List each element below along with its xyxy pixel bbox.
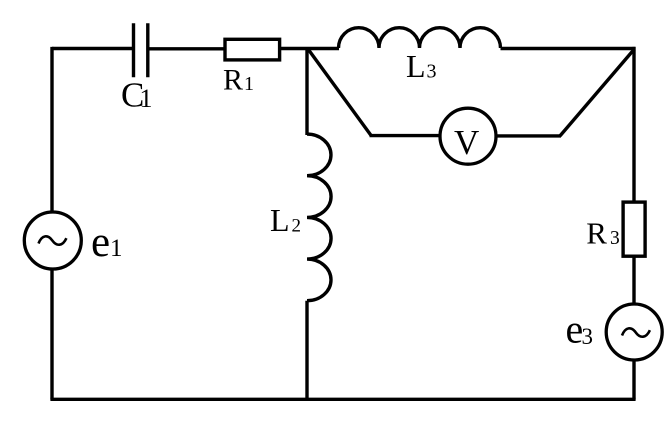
AC source e3 circle bbox=[606, 304, 662, 360]
svg-text:R: R bbox=[223, 63, 243, 96]
capacitor C1 plates bbox=[134, 23, 148, 77]
AC source e1 circle bbox=[24, 212, 81, 269]
inductor L3 coil (4 humps) bbox=[339, 28, 501, 48]
resistor R3 body bbox=[623, 202, 645, 256]
svg-text:L: L bbox=[406, 48, 426, 84]
svg-text:1: 1 bbox=[110, 235, 123, 262]
svg-text:3: 3 bbox=[427, 61, 437, 83]
svg-text:L: L bbox=[270, 202, 290, 238]
wire: e3 bottom to bottom-right corner bbox=[632, 359, 635, 400]
svg-text:R: R bbox=[586, 216, 607, 251]
svg-text:1: 1 bbox=[244, 73, 254, 95]
svg-text:e: e bbox=[91, 219, 110, 266]
wire: R3 bottom to e3 top bbox=[632, 256, 635, 305]
svg-text:V: V bbox=[454, 123, 479, 162]
resistor R1 body bbox=[225, 39, 280, 60]
wire: left vertical (e1 bottom to bottom-left corner) bbox=[50, 268, 53, 400]
voltmeter V circle bbox=[440, 108, 496, 164]
wire: R1 right to L3 start (through node) bbox=[281, 47, 339, 50]
sine symbol in e1 bbox=[39, 236, 67, 244]
wire: diagonal voltmeter branch to top-right corner bbox=[560, 49, 634, 136]
inductor L2 coil (4 humps) bbox=[307, 134, 331, 301]
wire: L2 bottom to bottom wire bbox=[305, 301, 308, 400]
wire: left vertical (top corner down to e1 top) bbox=[50, 47, 53, 213]
wire: voltmeter right horizontal bbox=[496, 134, 561, 137]
svg-text:3: 3 bbox=[610, 228, 620, 249]
wire: right vertical (top corner to R3 top) bbox=[632, 47, 635, 202]
svg-text:2: 2 bbox=[292, 215, 302, 236]
svg-text:3: 3 bbox=[582, 324, 594, 349]
wire: middle vertical (node to L2 top) bbox=[305, 47, 308, 135]
wire: bottom horizontal bbox=[50, 398, 635, 401]
wire: C1 right plate to R1 left bbox=[148, 47, 224, 50]
sine symbol in e3 bbox=[622, 328, 650, 336]
wire: top-left horizontal (corner to C1 left plate) bbox=[52, 47, 133, 50]
wire: diagonal node to voltmeter left branch bbox=[308, 49, 371, 135]
wire: L3 end to top-right corner bbox=[501, 47, 636, 50]
wire: horizontal into voltmeter left bbox=[370, 134, 441, 137]
svg-text:1: 1 bbox=[140, 84, 153, 113]
